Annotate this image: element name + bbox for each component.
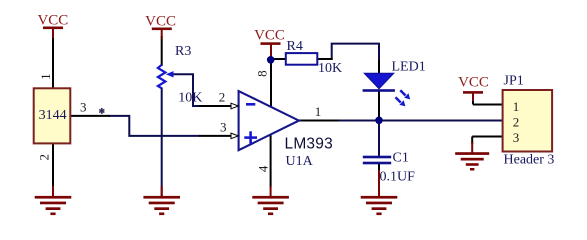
svg-text:3: 3	[80, 99, 87, 114]
svg-text:10K: 10K	[178, 91, 202, 106]
svg-text:VCC: VCC	[458, 75, 489, 91]
svg-text:LM393: LM393	[285, 135, 333, 152]
svg-text:Header 3: Header 3	[504, 152, 555, 167]
svg-text:1: 1	[38, 73, 53, 80]
svg-text:U1A: U1A	[286, 154, 314, 169]
svg-text:10K: 10K	[318, 61, 342, 76]
svg-text:2: 2	[219, 89, 226, 104]
svg-text:2: 2	[513, 115, 520, 130]
svg-text:4: 4	[255, 165, 270, 172]
svg-text:2: 2	[36, 154, 51, 161]
svg-text:1: 1	[315, 104, 322, 119]
svg-text:3: 3	[513, 130, 520, 145]
svg-text:0.1UF: 0.1UF	[380, 169, 416, 184]
svg-text:C1: C1	[393, 151, 409, 166]
svg-text:1: 1	[513, 99, 520, 114]
svg-text:R3: R3	[175, 44, 191, 59]
svg-text:VCC: VCC	[37, 13, 68, 29]
svg-text:R4: R4	[287, 39, 303, 54]
svg-text:3144: 3144	[39, 108, 67, 123]
svg-text:3: 3	[220, 120, 227, 135]
svg-text:LED1: LED1	[392, 59, 426, 74]
svg-text:JP1: JP1	[504, 74, 524, 89]
svg-text:VCC: VCC	[254, 27, 285, 43]
svg-text:VCC: VCC	[145, 13, 176, 29]
svg-text:8: 8	[255, 70, 270, 77]
